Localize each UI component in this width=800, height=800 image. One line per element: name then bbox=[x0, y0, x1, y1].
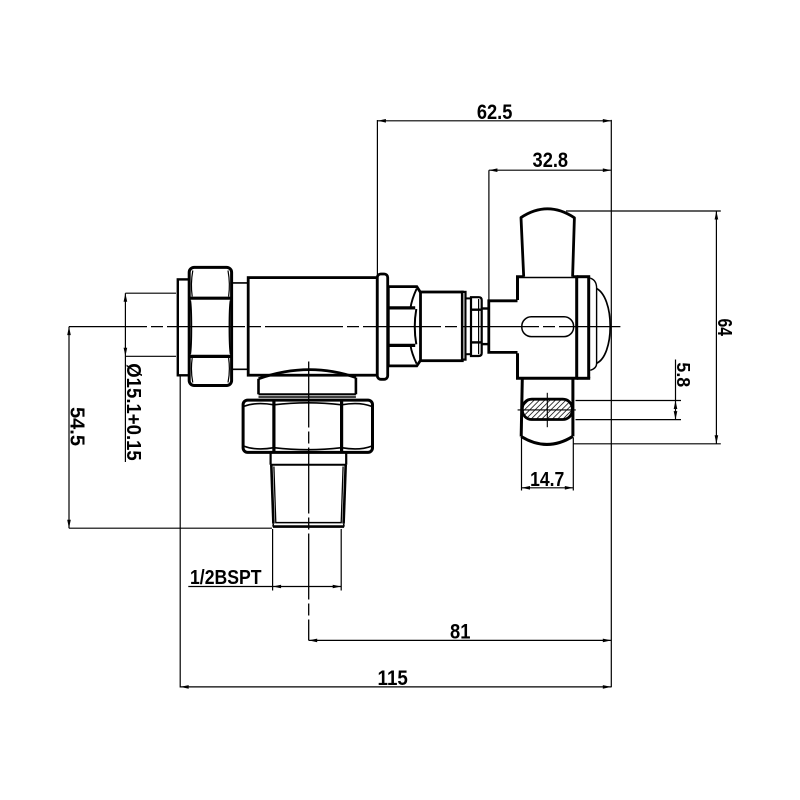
svg-text:Ø15.1+0.15: Ø15.1+0.15 bbox=[122, 363, 144, 461]
thread relief ring bbox=[271, 452, 347, 464]
handle hub bbox=[489, 301, 518, 353]
right shared extension line bbox=[610, 120, 612, 687]
handle block bbox=[518, 277, 591, 379]
dimension 64 bbox=[566, 211, 735, 444]
valve body bbox=[248, 278, 377, 376]
dimension 14.7 bbox=[522, 438, 574, 492]
svg-text:32.8: 32.8 bbox=[533, 149, 569, 172]
bottom hex nut bbox=[243, 400, 372, 452]
packing ring bbox=[471, 297, 482, 356]
neck end disc bbox=[462, 292, 465, 360]
dimension 81 bbox=[309, 621, 612, 644]
threaded tail 1/2BSPT bbox=[271, 465, 345, 527]
svg-text:1/2BSPT: 1/2BSPT bbox=[190, 567, 262, 589]
dimension 5.8 bbox=[576, 360, 694, 420]
svg-text:62.5: 62.5 bbox=[477, 101, 513, 124]
groove vertical centerline bbox=[546, 393, 548, 427]
label 1/2BSPT bbox=[188, 529, 341, 591]
main horizontal centerline bbox=[69, 326, 620, 328]
spindle neck cylinder bbox=[421, 292, 463, 361]
handle slot bbox=[522, 317, 574, 337]
bonnet dome bbox=[590, 278, 610, 370]
dimension 32.8 bbox=[489, 149, 611, 300]
gland hex nut bbox=[388, 287, 420, 366]
spindle stem bbox=[482, 309, 489, 345]
svg-text:5.8: 5.8 bbox=[673, 362, 693, 387]
svg-text:64: 64 bbox=[713, 318, 735, 336]
svg-text:81: 81 bbox=[450, 621, 471, 644]
dimension 54.5 bbox=[66, 327, 272, 529]
dimension 115 bbox=[180, 376, 611, 690]
dimension diameter 15.1 bbox=[122, 293, 176, 462]
svg-text:14.7: 14.7 bbox=[530, 468, 564, 491]
groove horizontal centerline bbox=[518, 409, 576, 411]
packing washer bbox=[466, 298, 472, 354]
handle grip bbox=[521, 209, 574, 277]
body outlet bell bbox=[259, 370, 356, 397]
handle lower shank bbox=[521, 378, 573, 444]
shank groove hatched bbox=[506, 397, 596, 423]
svg-text:54.5: 54.5 bbox=[66, 407, 88, 446]
right flange bbox=[377, 274, 387, 379]
dimension 62.5 bbox=[377, 101, 611, 277]
vertical branch centerline bbox=[308, 362, 310, 641]
svg-text:115: 115 bbox=[378, 667, 409, 690]
washer between union nut and body bbox=[232, 283, 249, 369]
tail cap bbox=[178, 279, 190, 375]
union nut bbox=[189, 267, 231, 385]
